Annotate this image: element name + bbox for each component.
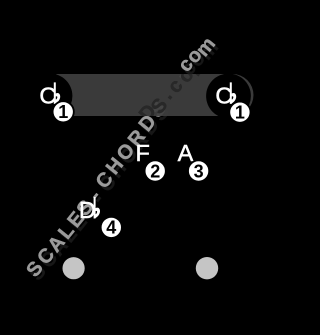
- watermark letter -: [84, 186, 105, 205]
- svg-text:1: 1: [235, 103, 245, 123]
- watermark letter S shadow: [148, 101, 173, 125]
- svg-text:A: A: [178, 140, 194, 166]
- watermark letter H: [102, 154, 128, 179]
- watermark letter S: [22, 257, 47, 281]
- left dot disc Cb: [28, 74, 73, 119]
- watermark letter D shadow: [138, 114, 164, 139]
- watermark letter S shadow: [25, 261, 50, 285]
- open string marker right: [196, 257, 218, 279]
- svg-text:2: 2: [150, 161, 160, 181]
- watermark letter m shadow: [195, 37, 223, 65]
- watermark letter . shadow: [171, 68, 192, 86]
- watermark letter O shadow: [116, 143, 143, 169]
- watermark letter A: [44, 232, 70, 257]
- finger badge 4: [101, 217, 122, 238]
- watermark letter o shadow: [185, 48, 210, 71]
- watermark dark letter o on bar: [174, 64, 199, 87]
- watermark letter c: [174, 54, 198, 76]
- watermark letter m: [192, 33, 220, 61]
- watermark letter L shadow: [57, 224, 82, 247]
- svg-text:4: 4: [106, 218, 116, 238]
- watermark letter L: [54, 220, 79, 243]
- watermark letter R: [124, 125, 151, 151]
- watermark letter D: [135, 111, 161, 136]
- watermark letter O: [113, 139, 140, 165]
- watermark letter C: [92, 168, 118, 193]
- watermark letter S: [145, 98, 170, 122]
- watermark letter S shadow: [76, 200, 101, 224]
- watermark dark letter D on bar: [135, 100, 161, 125]
- watermark letter c shadow: [177, 57, 201, 79]
- watermark dark letter . on bar: [156, 85, 177, 103]
- finger badge 2: [145, 160, 166, 181]
- watermark letter C shadow: [36, 247, 62, 272]
- watermark letter - shadow: [87, 189, 108, 208]
- right dot disc Cb: [206, 74, 251, 119]
- watermark dark letter m on bar: [184, 53, 212, 81]
- finger badge 1 left: [53, 101, 74, 122]
- finger badge 3: [188, 160, 209, 181]
- watermark letter o: [182, 44, 207, 67]
- watermark letter C: [33, 244, 59, 269]
- open string marker left: [63, 257, 85, 279]
- watermark letter E shadow: [66, 211, 91, 235]
- watermark letter .: [168, 64, 189, 82]
- watermark letter A shadow: [47, 235, 73, 260]
- svg-text:3: 3: [194, 161, 204, 181]
- svg-text:1: 1: [58, 102, 68, 122]
- watermark dark letter c on bar: [164, 75, 188, 97]
- watermark letter H shadow: [105, 157, 131, 182]
- watermark letter C shadow: [95, 171, 121, 196]
- watermark SCALES-CHORDS.com: [22, 33, 223, 285]
- watermark dark on bar: [135, 53, 213, 126]
- watermark letter R shadow: [127, 129, 154, 155]
- watermark letter E: [63, 208, 88, 232]
- finger badge 1 right: [229, 102, 250, 123]
- barre fret bar: [52, 74, 254, 116]
- svg-text:D: D: [79, 197, 96, 223]
- svg-text:F: F: [136, 140, 150, 166]
- watermark dark letter S on bar: [147, 94, 172, 118]
- watermark letter S: [73, 196, 98, 220]
